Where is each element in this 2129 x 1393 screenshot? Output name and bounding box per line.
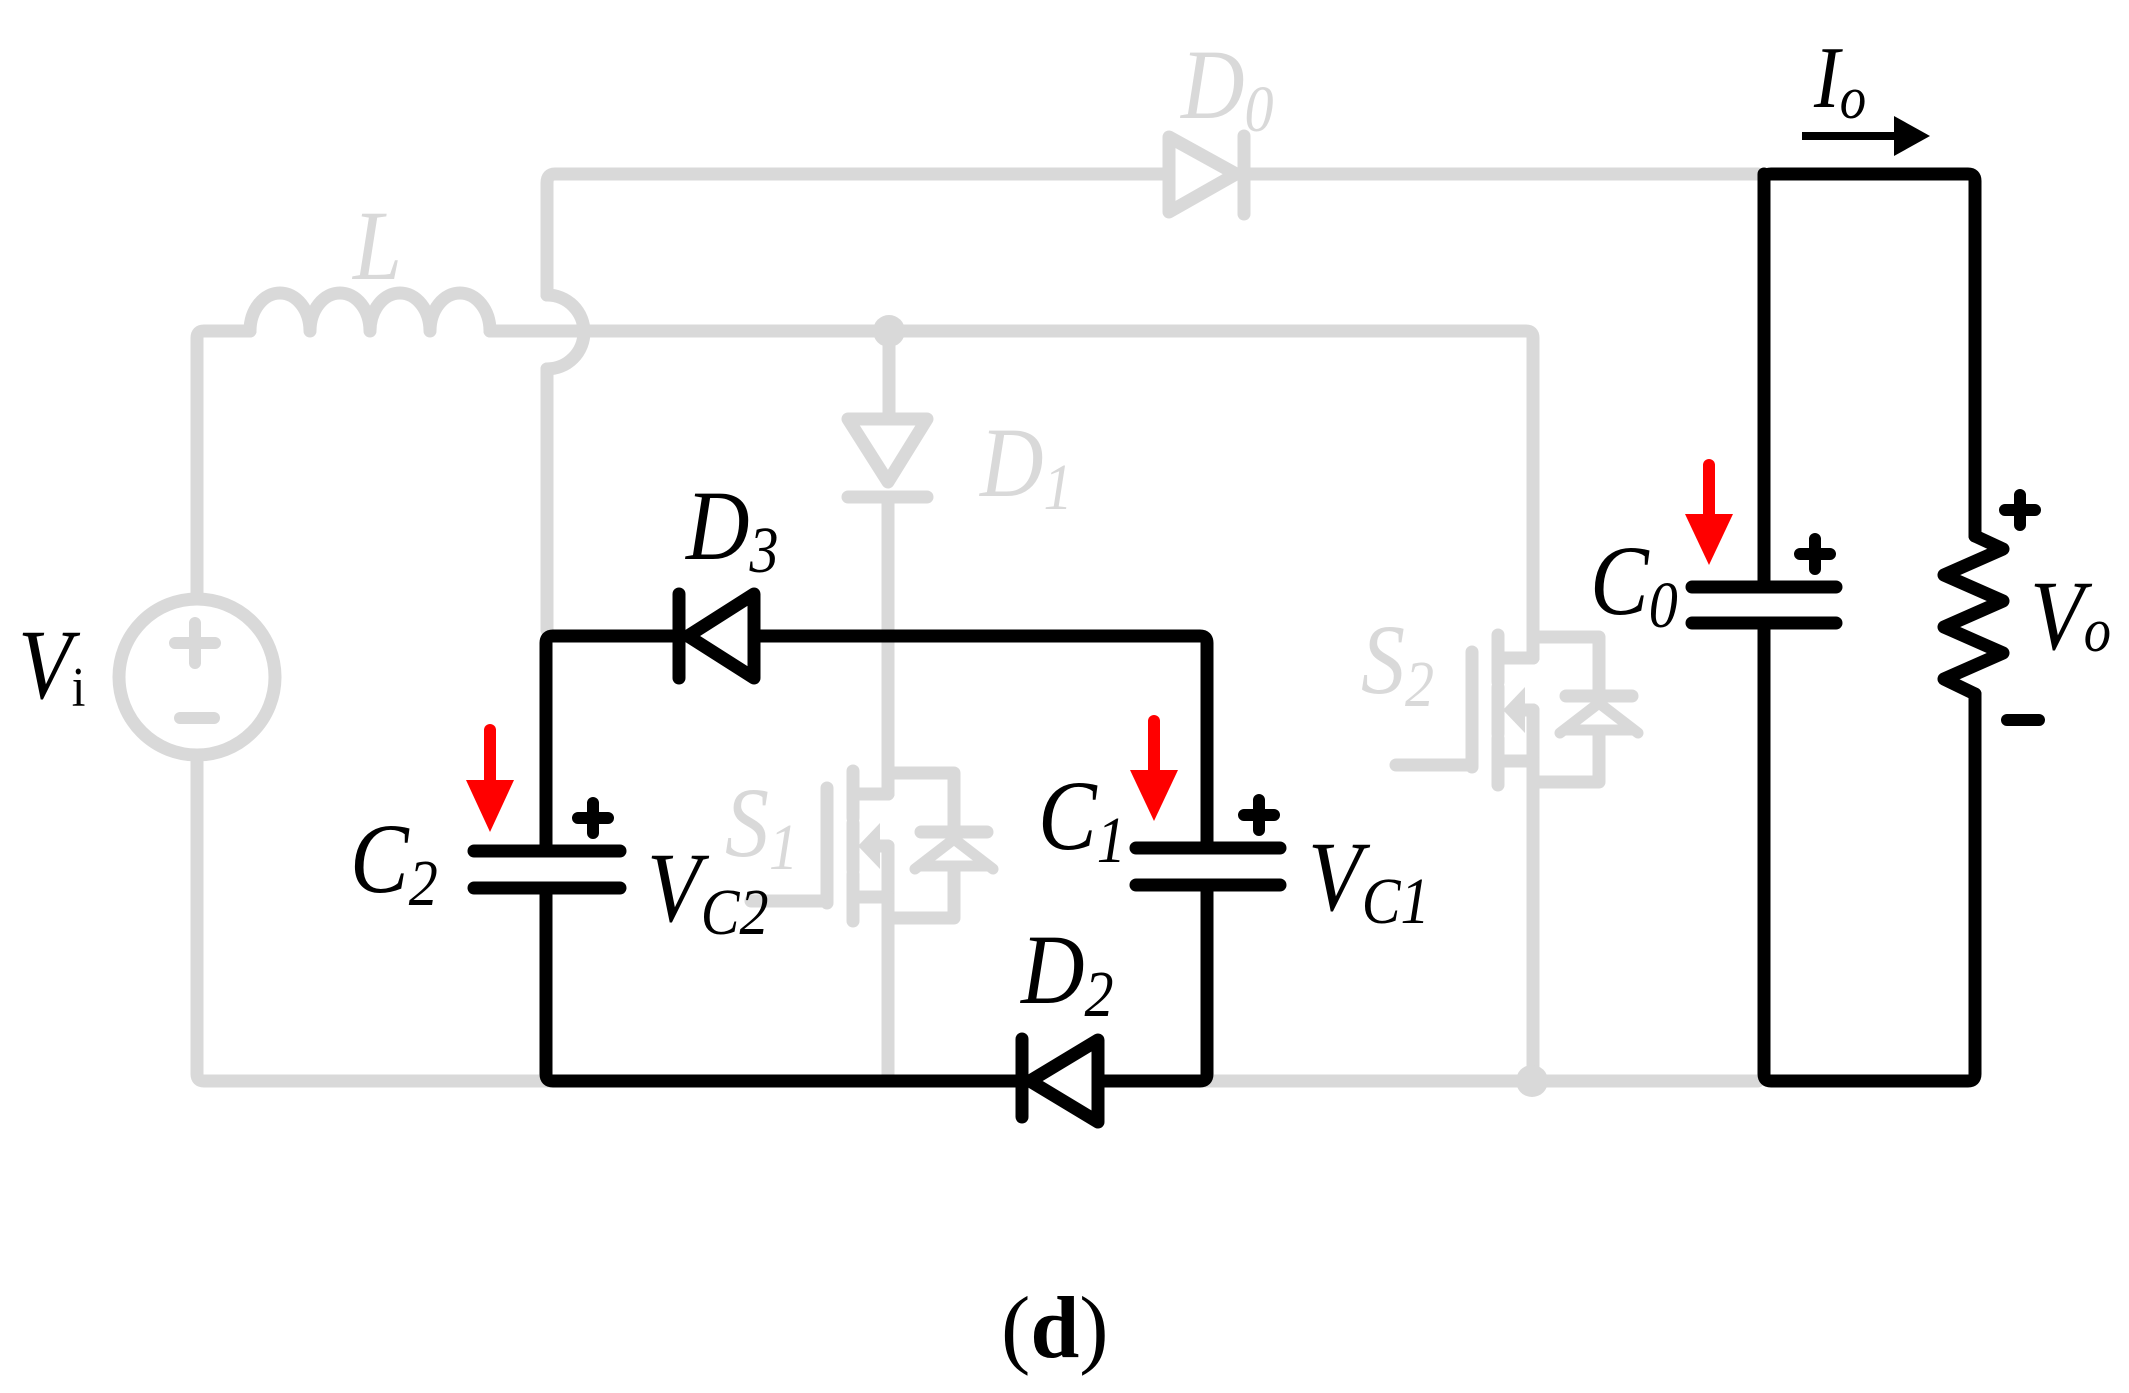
wire hop over middle rail	[547, 295, 584, 369]
Vi minus sign	[180, 712, 214, 724]
node junction dot bottom rail	[1516, 1065, 1548, 1097]
current arrow C1 red	[1130, 721, 1178, 821]
Vi plus sign	[175, 623, 215, 663]
wire D3 corner down to C2	[546, 636, 679, 851]
wire S1 source to bottom rail	[882, 846, 895, 1075]
wire S2 source down to junction dot	[1527, 710, 1540, 1081]
wire C0 branch upper	[1758, 174, 1771, 587]
plus Vo	[2005, 495, 2035, 525]
wire middle rail to S2 corner	[490, 331, 1533, 658]
diode D1 cathode bar and wire to S1 drain	[848, 497, 927, 794]
diode D2 cathode bar	[1016, 1039, 1029, 1117]
diode D0 triangle	[1169, 137, 1236, 212]
node junction dot middle rail	[873, 315, 905, 347]
diode D3 cathode bar	[673, 594, 686, 678]
source Vi circle	[119, 599, 275, 755]
wire D2 to C1 bottom corner	[1098, 885, 1207, 1081]
plus C2	[578, 803, 608, 833]
arrow Io	[1802, 132, 1896, 140]
capacitor C0 plates	[1692, 587, 1836, 623]
current arrow C2 red	[466, 730, 514, 832]
capacitor C1 plates	[1136, 848, 1280, 885]
transistor S2	[1396, 635, 1638, 785]
diode D2 triangle	[1030, 1040, 1098, 1122]
wire gray vertical down to D3 corner	[541, 369, 554, 630]
diode D0 cathode bar	[1238, 136, 1251, 214]
capacitor C2 plates	[474, 851, 620, 888]
plus C0	[1800, 539, 1830, 569]
diode D3 triangle	[688, 594, 754, 678]
arrowhead Io	[1894, 116, 1930, 156]
transistor S1	[751, 771, 993, 921]
wire top gray rail to load	[547, 174, 1758, 295]
wire load top rail	[1764, 174, 1975, 536]
wire D3 to C1 corner	[754, 636, 1207, 848]
wire C0 bottom and load bottom rail	[1764, 623, 1975, 1081]
svg-text:(d): (d)	[1001, 1280, 1109, 1377]
wire left rail corner to inductor	[197, 331, 250, 599]
resistor Vo zigzag	[1944, 536, 2003, 694]
plus C1	[1244, 800, 1274, 830]
wire C2 bottom to rail to D2	[546, 888, 1022, 1081]
diode D1 triangle	[848, 419, 927, 482]
minus Vo	[2007, 714, 2039, 726]
wire Vi bottom to bottom rail	[197, 755, 1758, 1081]
wire node to D1 anode	[883, 331, 896, 413]
current arrow C0 red	[1685, 465, 1733, 565]
inductor L	[250, 293, 490, 331]
svg-text:L: L	[351, 191, 402, 301]
